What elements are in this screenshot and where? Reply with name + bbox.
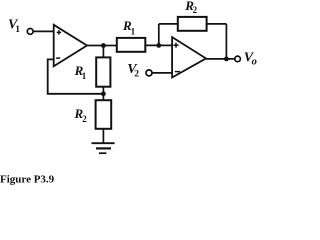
wire V1 to op-amp U1 + input — [33, 30, 54, 32]
op-amp U1 — [54, 25, 87, 67]
svg-text:2: 2 — [82, 114, 87, 124]
node A (U1 output junction) — [101, 43, 106, 48]
resistor R2 (vertical) — [96, 100, 112, 129]
terminal V2 — [146, 70, 152, 76]
node C (R1/R2/U2+ junction) — [156, 43, 161, 48]
svg-text:1: 1 — [82, 71, 87, 81]
terminal V1 — [27, 29, 33, 35]
svg-text:o: o — [252, 57, 257, 68]
svg-text:2: 2 — [134, 70, 139, 80]
ground — [92, 143, 115, 153]
wire node A down to R1 vertical — [102, 46, 104, 58]
wire R2 to output riser — [207, 23, 227, 25]
terminal Vo — [235, 56, 241, 62]
wire riser to R2 horizontal — [159, 23, 178, 25]
label V2 — [127, 62, 139, 80]
wire feedback from U1 - input to node B — [48, 59, 104, 93]
label R1 (vertical resistor) — [74, 63, 87, 81]
node D (output junction) — [224, 57, 229, 62]
svg-text:Figure P3.9: Figure P3.9 — [0, 174, 55, 186]
wire node C riser to R2 top — [158, 24, 160, 46]
wire R1 horizontal to U2 + input — [145, 44, 172, 46]
resistor R2 (horizontal top) — [178, 17, 207, 31]
label Vo — [244, 50, 257, 67]
svg-text:2: 2 — [193, 5, 198, 15]
wire U2 output — [206, 58, 235, 60]
node B (R1/R2 junction) — [101, 91, 106, 96]
label R2 (vertical resistor) — [74, 106, 88, 124]
wire R2 to ground — [102, 129, 104, 143]
op-amp U2 — [172, 37, 206, 77]
label R2 (horizontal resistor) — [184, 0, 197, 15]
wire V2 to U2 - input — [152, 72, 172, 74]
svg-text:1: 1 — [131, 27, 136, 37]
wire output riser down — [225, 24, 227, 59]
resistor R1 (vertical) — [96, 57, 110, 86]
label V1 — [8, 18, 20, 35]
caption Figure P3.9 — [0, 174, 55, 186]
wire R1 vertical to node B — [102, 87, 104, 101]
wire U1 output to node A — [87, 45, 103, 47]
wire node A to R1 horizontal — [103, 45, 116, 47]
label R1 (horizontal resistor) — [122, 18, 136, 36]
resistor R1 (horizontal) — [117, 38, 146, 52]
svg-text:1: 1 — [15, 25, 20, 35]
